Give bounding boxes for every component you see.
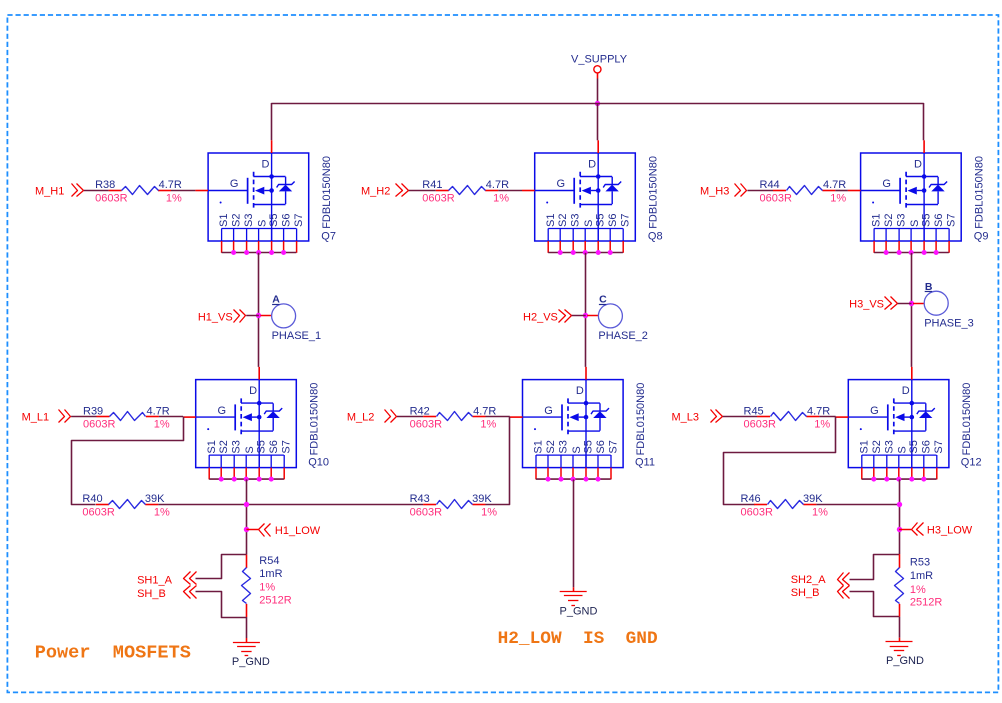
port H1_LOW <box>246 529 258 531</box>
svg-text:H3_LOW: H3_LOW <box>927 525 973 537</box>
wire phase 3 <box>911 253 913 303</box>
V_SUPPLY terminal <box>594 66 601 73</box>
svg-text:Power MOSFETS: Power MOSFETS <box>35 643 191 664</box>
svg-text:0603R: 0603R <box>760 192 792 204</box>
svg-text:4.7R: 4.7R <box>159 179 182 191</box>
wire Q10 source down <box>246 479 248 554</box>
transistor Q8 <box>522 140 635 255</box>
svg-text:R53: R53 <box>910 557 930 569</box>
svg-text:1mR: 1mR <box>910 570 933 582</box>
resistor R44 lead <box>773 190 786 192</box>
wire R38 to gate <box>171 190 195 192</box>
wire Q11 source to ground <box>573 479 575 587</box>
wire R42 to gate <box>486 416 510 418</box>
resistor R54 <box>246 555 248 568</box>
svg-text:H2_VS: H2_VS <box>523 311 558 323</box>
ground P_GND 1 <box>246 638 248 642</box>
wire R53 to ground <box>899 617 901 638</box>
offpage connector PHASE_1 <box>260 315 271 317</box>
resistor R39 body <box>110 412 146 421</box>
svg-text:SH2_A: SH2_A <box>791 574 827 586</box>
svg-text:1%: 1% <box>166 192 182 204</box>
wire bus to Q7 drain <box>271 103 273 140</box>
transistor Q10 <box>183 367 296 482</box>
offpage connector PHASE_2 <box>587 315 598 317</box>
svg-text:R38: R38 <box>95 179 115 191</box>
svg-text:1%: 1% <box>481 507 497 519</box>
svg-text:R44: R44 <box>760 179 780 191</box>
wire Q10 gate tap <box>72 417 184 505</box>
svg-text:R41: R41 <box>422 179 442 191</box>
svg-text:1%: 1% <box>812 507 828 519</box>
port SH_B <box>184 586 191 599</box>
svg-text:PHASE_1: PHASE_1 <box>272 330 322 342</box>
wire M_L1 to R39 <box>71 416 96 418</box>
svg-text:H2_LOW IS GND: H2_LOW IS GND <box>498 629 658 649</box>
wire M_H3 to R44 <box>747 190 773 192</box>
svg-text:39K: 39K <box>472 493 492 505</box>
wire M_H1 to R38 <box>84 190 109 192</box>
svg-text:SH1_A: SH1_A <box>137 574 173 586</box>
wire M_L2 to R42 <box>397 416 423 418</box>
svg-text:FDBL0150N80: FDBL0150N80 <box>635 383 647 456</box>
wire V_SUPPLY down <box>597 73 599 79</box>
svg-text:1%: 1% <box>480 419 496 431</box>
port H3_LOW <box>899 529 911 531</box>
svg-text:0603R: 0603R <box>82 507 114 519</box>
offpage connector PHASE_3 <box>913 303 924 305</box>
wire shunt bracket top <box>196 555 247 579</box>
resistor R42 body <box>437 412 473 421</box>
wire R39 to gate <box>159 416 183 418</box>
svg-text:4.7R: 4.7R <box>473 405 496 417</box>
svg-text:R40: R40 <box>82 493 102 505</box>
svg-text:M_H3: M_H3 <box>700 186 729 198</box>
svg-text:0603R: 0603R <box>83 419 115 431</box>
transistor Q11 <box>510 367 623 482</box>
svg-text:P_GND: P_GND <box>232 656 270 668</box>
svg-text:M_L2: M_L2 <box>347 412 375 424</box>
wire R44 to gate <box>835 190 848 192</box>
wire bus to Q9 drain <box>923 103 925 140</box>
wire Q12 source down <box>899 479 901 554</box>
junction phase 3 <box>909 301 914 306</box>
svg-text:R39: R39 <box>83 405 103 417</box>
svg-text:M_H2: M_H2 <box>361 186 390 198</box>
svg-text:1%: 1% <box>154 419 170 431</box>
port SH2_A <box>838 573 844 586</box>
svg-text:1%: 1% <box>259 581 275 593</box>
resistor R41 lead <box>436 190 449 192</box>
junction H3_LOW <box>897 527 902 532</box>
transistor Q7 <box>195 140 308 255</box>
svg-text:Q7: Q7 <box>321 230 336 242</box>
wire phase 1 <box>258 253 260 316</box>
wire R41 to gate <box>498 190 522 192</box>
resistor R45 lead <box>757 416 770 418</box>
svg-text:0603R: 0603R <box>422 192 454 204</box>
resistor R39 lead <box>97 416 110 418</box>
ground P_GND 3 <box>899 638 901 642</box>
wire R40 to H1_LOW node <box>158 504 246 506</box>
svg-text:V_SUPPLY: V_SUPPLY <box>571 54 628 66</box>
ground P_GND 2 <box>573 587 575 591</box>
svg-text:H1_VS: H1_VS <box>198 311 233 323</box>
transistor Q9 <box>848 140 961 255</box>
junction V_SUPPLY bus <box>595 101 600 106</box>
svg-text:4.7R: 4.7R <box>486 179 509 191</box>
resistor R46 body <box>768 500 804 509</box>
wire Q12 gate tap <box>724 417 836 505</box>
wire R43 to Q11 gate tap <box>486 417 510 505</box>
wire supply bus <box>271 103 924 105</box>
svg-text:0603R: 0603R <box>410 507 442 519</box>
svg-text:Q9: Q9 <box>974 230 989 242</box>
svg-text:39K: 39K <box>803 493 823 505</box>
svg-text:M_H1: M_H1 <box>35 186 64 198</box>
wire H1_LOW to R43 <box>246 504 423 506</box>
wire shunt bracket top <box>850 555 900 580</box>
svg-text:2512R: 2512R <box>259 594 291 606</box>
wire R54 to ground <box>246 617 248 638</box>
svg-text:1mR: 1mR <box>259 568 282 580</box>
wire R45 to gate <box>819 416 835 418</box>
svg-text:FDBL0150N80: FDBL0150N80 <box>961 383 973 456</box>
svg-text:SH_B: SH_B <box>137 588 166 600</box>
svg-text:PHASE_3: PHASE_3 <box>924 317 974 329</box>
wire phase 2 <box>585 253 587 316</box>
wire M_L3 to R45 <box>723 416 757 418</box>
svg-text:0603R: 0603R <box>744 419 776 431</box>
svg-text:M_L1: M_L1 <box>22 412 50 424</box>
svg-text:H3_VS: H3_VS <box>849 299 884 311</box>
transistor Q12 <box>836 367 949 482</box>
svg-text:SH_B: SH_B <box>791 587 820 599</box>
resistor R38 lead <box>109 190 122 192</box>
resistor R45 body <box>771 412 807 421</box>
junction H1_LOW <box>244 527 249 532</box>
wire M_H2 to R41 <box>409 190 436 192</box>
svg-text:0603R: 0603R <box>410 419 442 431</box>
svg-text:R42: R42 <box>410 405 430 417</box>
svg-text:0603R: 0603R <box>95 192 127 204</box>
svg-text:2512R: 2512R <box>910 596 942 608</box>
wire R46 to H3_LOW node <box>816 504 899 506</box>
svg-text:M_L3: M_L3 <box>672 412 700 424</box>
svg-text:4.7R: 4.7R <box>807 405 830 417</box>
svg-text:0603R: 0603R <box>741 507 773 519</box>
svg-text:4.7R: 4.7R <box>147 405 170 417</box>
svg-text:P_GND: P_GND <box>560 606 598 618</box>
svg-text:39K: 39K <box>145 493 165 505</box>
resistor R42 lead <box>423 416 436 418</box>
svg-text:1%: 1% <box>814 419 830 431</box>
resistor R43 body <box>437 500 473 509</box>
port SH_B 2 <box>838 586 844 599</box>
port SH1_A <box>184 572 191 585</box>
svg-text:P_GND: P_GND <box>886 655 924 667</box>
svg-text:FDBL0150N80: FDBL0150N80 <box>973 156 985 229</box>
resistor R40 body <box>109 500 146 509</box>
svg-text:FDBL0150N80: FDBL0150N80 <box>647 156 659 229</box>
junction phase 2 <box>583 313 588 318</box>
svg-text:1%: 1% <box>154 507 170 519</box>
svg-text:R43: R43 <box>410 493 430 505</box>
svg-text:Q10: Q10 <box>308 457 329 469</box>
svg-text:1%: 1% <box>910 584 926 596</box>
resistor R53 <box>899 554 901 568</box>
svg-text:4.7R: 4.7R <box>823 179 846 191</box>
svg-text:C: C <box>599 294 607 306</box>
svg-text:1%: 1% <box>830 192 846 204</box>
resistor R43 lead <box>423 504 436 506</box>
resistor R46 lead <box>754 504 767 506</box>
resistor R38 body <box>122 186 159 195</box>
resistor R44 body <box>787 186 823 195</box>
svg-text:R46: R46 <box>741 493 761 505</box>
svg-text:Q8: Q8 <box>648 230 663 242</box>
svg-text:A: A <box>272 294 280 306</box>
junction R46 node <box>897 502 902 507</box>
svg-text:R45: R45 <box>744 405 764 417</box>
svg-text:Q11: Q11 <box>635 457 655 469</box>
resistor R41 body <box>449 186 486 195</box>
wire shunt bracket bottom <box>196 592 247 618</box>
resistor R40 lead <box>96 504 109 506</box>
svg-text:PHASE_2: PHASE_2 <box>598 330 648 342</box>
junction phase 1 <box>256 313 261 318</box>
svg-text:H1_LOW: H1_LOW <box>275 525 321 537</box>
svg-text:1%: 1% <box>493 192 509 204</box>
svg-text:R54: R54 <box>259 555 279 567</box>
wire shunt bracket bottom <box>850 592 900 617</box>
junction R40 node <box>244 502 249 507</box>
svg-text:FDBL0150N80: FDBL0150N80 <box>308 383 320 456</box>
svg-text:Q12: Q12 <box>961 457 982 469</box>
wire bus to Q8 drain <box>597 103 599 140</box>
svg-text:FDBL0150N80: FDBL0150N80 <box>321 156 333 229</box>
